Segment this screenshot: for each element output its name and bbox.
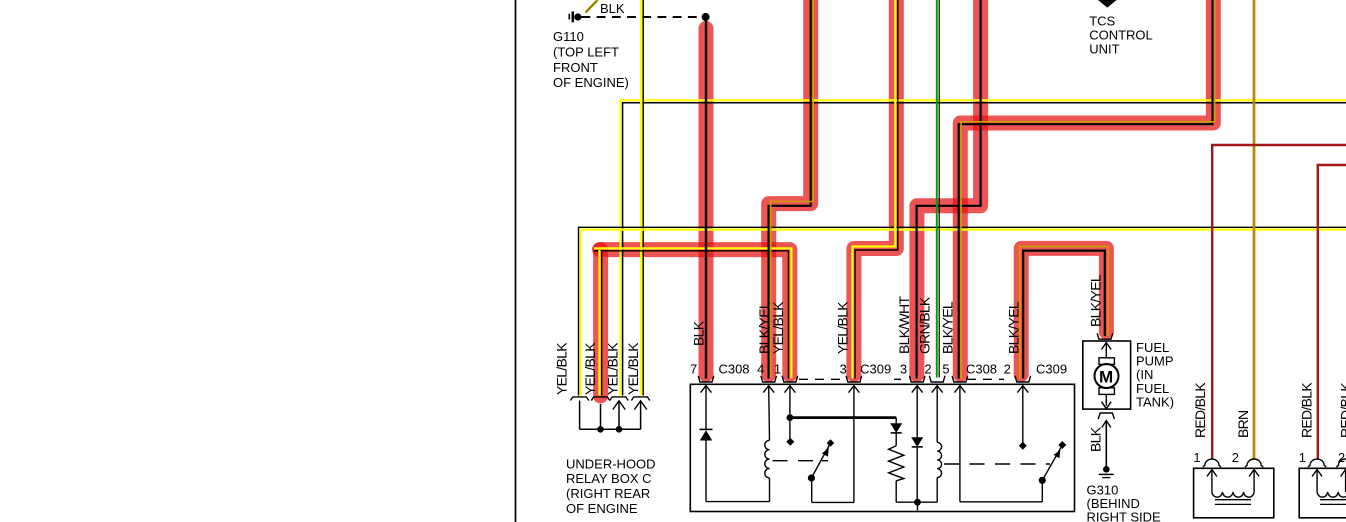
svg-text:1: 1: [1299, 450, 1306, 465]
svg-text:7: 7: [690, 362, 697, 377]
svg-text:1: 1: [1193, 450, 1200, 465]
svg-text:UNDER-HOOD: UNDER-HOOD: [566, 456, 656, 471]
svg-text:2: 2: [924, 362, 931, 377]
svg-text:YEL/BLK: YEL/BLK: [625, 342, 641, 395]
svg-text:RIGHT SIDE: RIGHT SIDE: [1087, 510, 1161, 522]
svg-text:CONTROL: CONTROL: [1089, 28, 1153, 43]
svg-text:C309: C309: [1036, 362, 1067, 377]
svg-text:OF ENGINE): OF ENGINE): [553, 75, 629, 90]
svg-text:BLK/YEL: BLK/YEL: [1088, 274, 1104, 327]
svg-text:BLK: BLK: [600, 1, 625, 16]
svg-text:BLK/YEL: BLK/YEL: [940, 301, 956, 354]
svg-text:BLK/YEL: BLK/YEL: [1006, 301, 1022, 354]
svg-text:OF ENGINE: OF ENGINE: [566, 501, 638, 516]
svg-text:2: 2: [1338, 450, 1345, 465]
svg-text:FRONT: FRONT: [553, 60, 598, 75]
svg-text:BLK: BLK: [691, 320, 707, 346]
svg-text:BLK/WHT: BLK/WHT: [896, 296, 912, 354]
svg-text:YEL/BLK: YEL/BLK: [605, 342, 621, 395]
svg-text:1: 1: [774, 362, 781, 377]
svg-text:2: 2: [1004, 362, 1011, 377]
svg-text:4: 4: [757, 362, 764, 377]
svg-text:YEL/BLK: YEL/BLK: [553, 342, 569, 395]
svg-text:3: 3: [840, 362, 847, 377]
svg-text:TANK): TANK): [1136, 394, 1174, 409]
svg-text:C308: C308: [966, 362, 997, 377]
svg-text:RELAY BOX C: RELAY BOX C: [566, 471, 652, 486]
svg-text:YEL/BLK: YEL/BLK: [770, 301, 786, 354]
svg-text:(RIGHT REAR: (RIGHT REAR: [566, 486, 650, 501]
svg-text:GRN/BLK: GRN/BLK: [916, 296, 932, 354]
svg-text:3: 3: [900, 362, 907, 377]
svg-text:YEL/BLK: YEL/BLK: [582, 342, 598, 395]
svg-text:TCS: TCS: [1089, 14, 1115, 29]
svg-text:BLK: BLK: [1088, 426, 1104, 452]
svg-text:RED/BLK: RED/BLK: [1338, 382, 1346, 438]
svg-text:BRN: BRN: [1235, 411, 1251, 438]
svg-text:M: M: [1099, 367, 1113, 386]
svg-text:2: 2: [1232, 450, 1239, 465]
svg-text:G110: G110: [553, 29, 584, 44]
svg-text:5: 5: [942, 362, 949, 377]
svg-text:YEL/BLK: YEL/BLK: [835, 301, 851, 354]
svg-text:C308: C308: [718, 362, 749, 377]
svg-text:RED/BLK: RED/BLK: [1192, 382, 1208, 438]
svg-text:UNIT: UNIT: [1089, 42, 1119, 57]
svg-text:C309: C309: [860, 362, 891, 377]
svg-text:(TOP LEFT: (TOP LEFT: [553, 45, 619, 60]
svg-text:RED/BLK: RED/BLK: [1299, 382, 1315, 438]
